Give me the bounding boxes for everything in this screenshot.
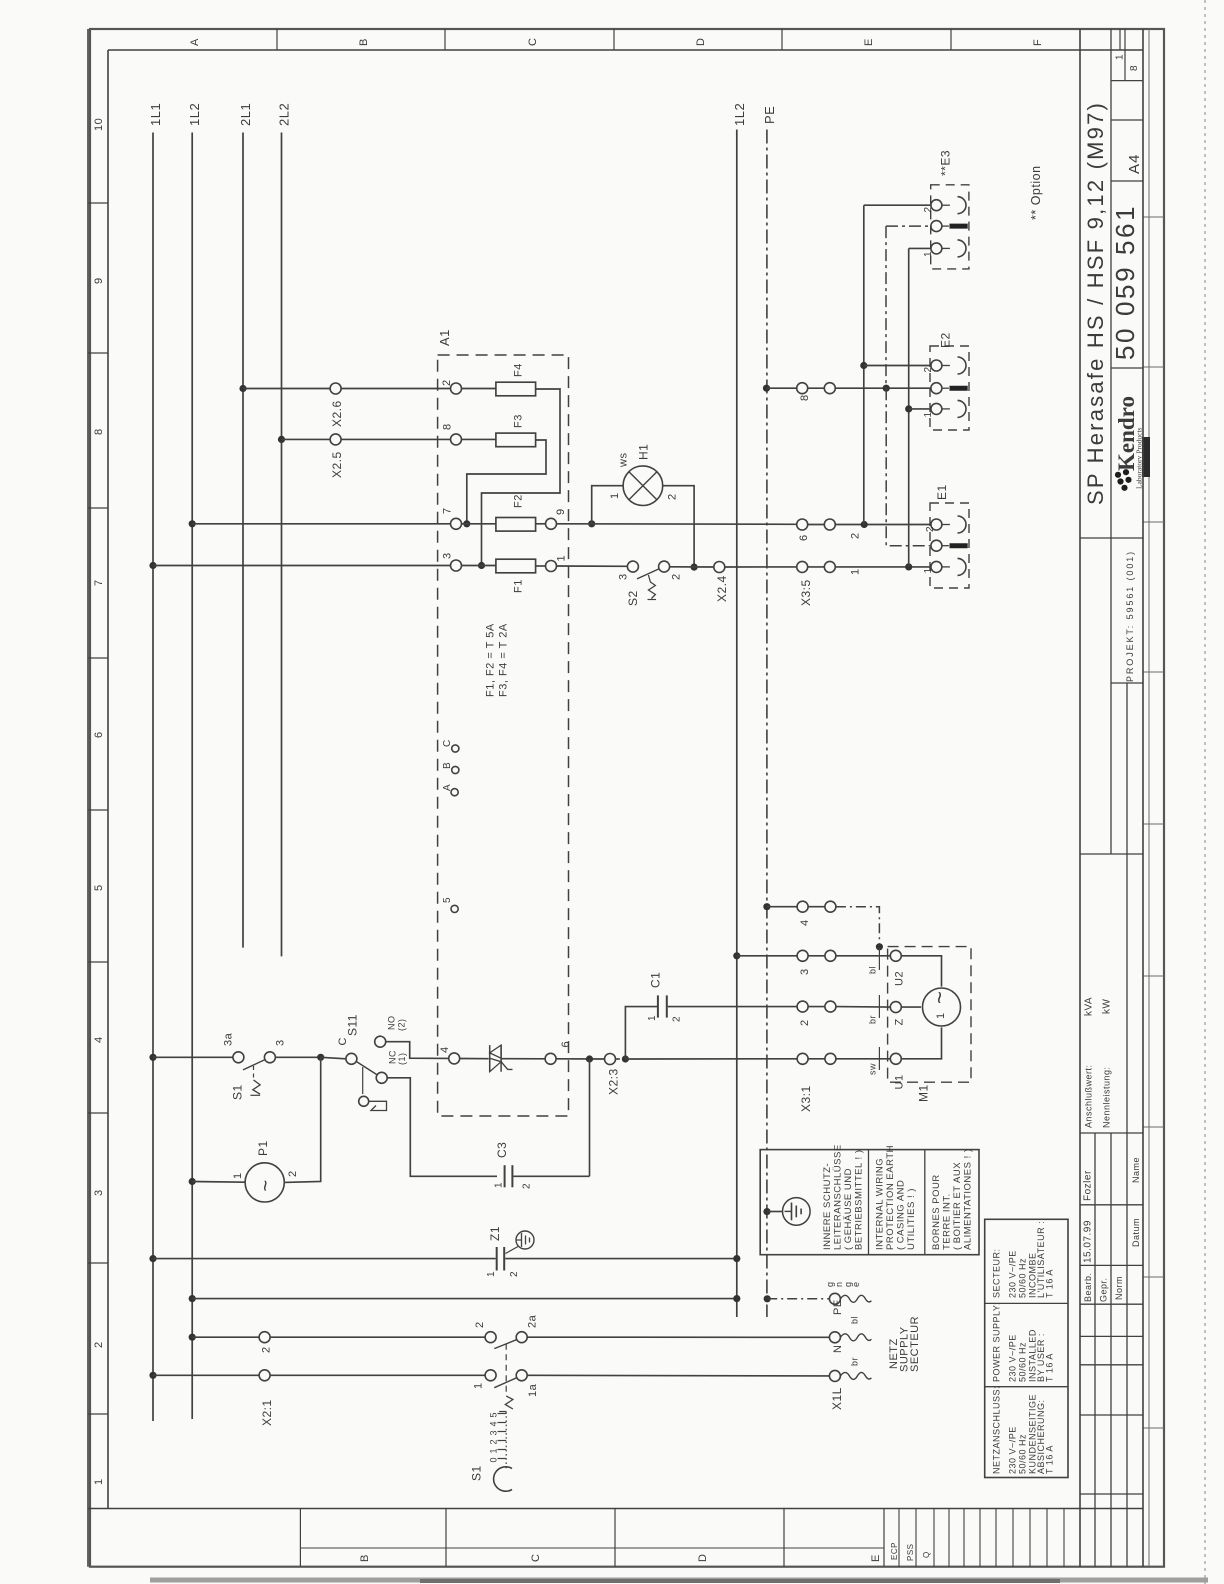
label 2L2 — [277, 103, 292, 126]
bus PE (dash-dot) — [766, 130, 768, 1318]
svg-text:8: 8 — [1129, 65, 1140, 71]
svg-text:5: 5 — [442, 897, 453, 903]
svg-text:D: D — [697, 1554, 709, 1562]
wire X2:1-2 to S1 contact 2 — [270, 1336, 485, 1338]
node PE bus to X1L — [764, 1295, 771, 1302]
pin A of A1 — [442, 784, 458, 796]
svg-text:6: 6 — [93, 731, 105, 738]
svg-text:X3:5: X3:5 — [799, 579, 813, 606]
node C3 riser — [586, 1055, 593, 1062]
svg-text:3: 3 — [489, 1430, 499, 1436]
svg-text:1: 1 — [647, 1015, 658, 1021]
wire E3 pin2 — [864, 204, 931, 206]
svg-text:4: 4 — [439, 1046, 451, 1053]
svg-text:1a: 1a — [527, 1383, 539, 1397]
wire X3:1-2 to motor Z — [836, 995, 890, 1024]
svg-text:Bearb.: Bearb. — [1083, 1272, 1093, 1302]
wire F1 to pin 1 — [536, 565, 546, 567]
svg-text:Gepr.: Gepr. — [1099, 1277, 1109, 1302]
pin 8 of A1 — [442, 423, 462, 445]
svg-text:2: 2 — [672, 1016, 683, 1022]
wire lamp pin2 — [663, 486, 694, 567]
svg-text:Name: Name — [1131, 1157, 1141, 1183]
svg-text:50 059 561: 50 059 561 — [1110, 204, 1140, 360]
svg-text:kW: kW — [1102, 999, 1113, 1015]
label option note — [1029, 165, 1043, 220]
terminal X2:1 pin 2 — [259, 1332, 272, 1353]
node 1L1 to S1 aux row — [149, 1054, 156, 1061]
svg-text:2: 2 — [850, 532, 862, 539]
svg-text:br: br — [850, 1357, 860, 1366]
svg-text:2: 2 — [923, 206, 934, 212]
Kendro logo — [1114, 396, 1144, 491]
svg-text:10: 10 — [93, 118, 105, 131]
value label fuses — [485, 623, 510, 697]
node E2 pin1 tap — [905, 405, 912, 412]
svg-text:2: 2 — [489, 1439, 499, 1445]
triac V1 phase control — [490, 1045, 513, 1072]
pin 9 of A1 — [546, 508, 568, 529]
svg-text:POWER SUPPLY:: POWER SUPPLY: — [992, 1302, 1002, 1382]
svg-text:2: 2 — [261, 1346, 273, 1353]
supply ratings box — [985, 1219, 1068, 1477]
wire 1L1 to S1 contact 3a — [153, 1056, 233, 1058]
bus 1L2 — [191, 133, 193, 1420]
svg-text:4: 4 — [489, 1421, 499, 1427]
svg-text:~: ~ — [927, 991, 952, 1004]
S1 position scale 0..5 — [489, 1412, 507, 1468]
svg-text:INTERNAL WIRING: INTERNAL WIRING — [875, 1158, 886, 1250]
label 1L2 right — [732, 103, 747, 126]
svg-text:1L2: 1L2 — [187, 103, 202, 126]
wire to E2 pin2 — [864, 365, 931, 367]
wire 1L1 to X2:1 pin1 — [153, 1374, 259, 1376]
pin 3 of A1 — [442, 552, 462, 571]
terminal X3:5 pin 1 — [797, 561, 836, 606]
svg-text:Datum: Datum — [1131, 1218, 1141, 1247]
svg-text:T 16 A: T 16 A — [1045, 1445, 1055, 1474]
main switch S1 contact 2-2a — [474, 1314, 539, 1348]
capacitor C3 — [494, 1142, 533, 1189]
svg-text:1: 1 — [494, 1182, 505, 1188]
svg-text:3: 3 — [93, 1189, 105, 1196]
fuse F2 — [496, 494, 536, 531]
svg-text:NO: NO — [387, 1016, 397, 1031]
svg-text:S1: S1 — [231, 1084, 245, 1100]
svg-text:2a: 2a — [527, 1314, 539, 1328]
wire E3 pin1 — [909, 247, 931, 249]
wire PE to X1L PE (dash-dot) — [767, 1298, 829, 1300]
label 2L1 — [238, 103, 253, 126]
wire PE to X3:5-8 — [767, 387, 797, 389]
svg-text:1: 1 — [486, 1271, 497, 1277]
label PE — [762, 106, 777, 124]
bus 1L1 — [152, 133, 154, 1422]
svg-text:2: 2 — [522, 1183, 533, 1189]
svg-text:X3:1: X3:1 — [799, 1085, 813, 1112]
terminal X1L N pigtail — [829, 1316, 871, 1353]
wire 1L1 to Z1 — [153, 1258, 496, 1260]
svg-text:BETRIEBSMITTEL ! ): BETRIEBSMITTEL ! ) — [854, 1150, 865, 1251]
svg-text:0: 0 — [489, 1457, 499, 1463]
motor M1 terminal Z — [890, 1002, 905, 1026]
internal protective earth symbol — [783, 1198, 811, 1226]
node N link to bus — [733, 1295, 740, 1302]
svg-text:3: 3 — [799, 968, 811, 975]
svg-text:NETZANSCHLUSS:: NETZANSCHLUSS: — [992, 1386, 1002, 1474]
wire X3:1-3 to motor U2 — [836, 948, 890, 975]
node 1L2 to pin7 row — [189, 520, 196, 527]
svg-text:1: 1 — [1115, 54, 1126, 60]
riser wire to E3 pin 2 — [863, 205, 865, 524]
terminal X2:1 pin 1 — [259, 1370, 274, 1426]
pin 7 of A1 — [442, 507, 462, 529]
wire S1 2a to X1L N — [527, 1336, 829, 1338]
node PE to X3:5 row8 — [763, 385, 770, 392]
svg-text:P1: P1 — [256, 1140, 270, 1156]
svg-text:5: 5 — [93, 884, 105, 891]
terminal X3:1 pin 2 — [797, 1001, 836, 1026]
svg-text:Anschlußwert:: Anschlußwert: — [1084, 1064, 1094, 1128]
S1 spring — [499, 1396, 513, 1412]
svg-text:1: 1 — [609, 492, 621, 499]
fuse F4 — [496, 363, 536, 396]
socket outlet E3 (option) — [923, 150, 969, 269]
terminal X2:4 — [714, 562, 729, 603]
svg-text:( CASING AND: ( CASING AND — [896, 1180, 907, 1250]
wire X2:6 row — [243, 388, 451, 390]
node E2 pin2 tap — [860, 362, 867, 369]
svg-text:BORNES POUR: BORNES POUR — [931, 1174, 942, 1250]
wire pin4 to triac — [460, 1058, 489, 1060]
frame row strip bottom (grid letters B..E) — [300, 1509, 884, 1567]
node 1L2 to X2:1-2 row — [189, 1334, 196, 1341]
svg-text:T 16 A: T 16 A — [1045, 1269, 1055, 1298]
svg-text:F2: F2 — [513, 494, 525, 508]
svg-text:br: br — [868, 1015, 878, 1024]
PE drop to E1 earth (dash-dot) — [886, 388, 931, 546]
label 1L1 — [148, 103, 163, 126]
svg-text:sw: sw — [868, 1063, 878, 1075]
svg-text:4: 4 — [93, 1036, 105, 1043]
svg-text:C: C — [442, 739, 453, 747]
svg-text:T 16 A: T 16 A — [1045, 1353, 1055, 1382]
svg-text:F3, F4 = T 2A: F3, F4 = T 2A — [498, 623, 510, 697]
svg-text:e: e — [851, 1281, 861, 1287]
document number — [1110, 204, 1140, 360]
svg-text:F1, F2 = T 5A: F1, F2 = T 5A — [485, 623, 497, 697]
wire node to S11 common — [321, 1057, 346, 1059]
wire pin6 to X2:3 — [556, 1058, 604, 1060]
svg-text:1: 1 — [923, 567, 934, 573]
earth note text german — [822, 1144, 865, 1250]
motor M1 terminal U1 — [890, 1053, 905, 1089]
svg-text:(2): (2) — [397, 1019, 407, 1032]
label gnge — [825, 1281, 861, 1287]
filter Z1 — [486, 1226, 534, 1277]
earth note text english — [875, 1145, 918, 1250]
svg-text:ALIMENTATIONES ! ): ALIMENTATIONES ! ) — [963, 1148, 974, 1250]
frame strip right — [1143, 29, 1164, 1567]
svg-text:Fozler: Fozler — [1083, 1170, 1094, 1201]
svg-text:15.07.99: 15.07.99 — [1083, 1220, 1094, 1263]
svg-text:C3: C3 — [495, 1142, 509, 1158]
svg-text:3: 3 — [442, 552, 454, 559]
node riser to E2/E3 pin1 — [905, 563, 912, 570]
wire to X3:1 row3 — [737, 955, 797, 957]
wire pin1 to S2 — [557, 565, 628, 567]
wire X3:5-6 to E1 pin2 — [835, 525, 931, 540]
svg-text:1: 1 — [232, 1172, 244, 1179]
bus 2L2 — [281, 133, 283, 957]
wire S11 NC to C3 — [387, 1078, 497, 1177]
label 1L2 — [187, 103, 202, 126]
socket outlet E2 — [923, 332, 969, 430]
terminal X1L PE pigtail — [829, 1293, 871, 1315]
svg-text:SECTEUR:: SECTEUR: — [992, 1248, 1002, 1298]
wire 1L2 to right bus (N link) — [192, 1298, 737, 1300]
svg-text:SP Herasafe HS / HSF 9,12 (M9: SP Herasafe HS / HSF 9,12 (M97) — [1083, 101, 1108, 505]
riser wire to E3 pin 1 — [908, 248, 910, 567]
svg-text:X2:1: X2:1 — [260, 1399, 274, 1426]
wire X3:5-8 to E2 earth — [835, 387, 931, 389]
svg-text:INNERE SCHUTZ-: INNERE SCHUTZ- — [822, 1163, 833, 1250]
svg-text:1: 1 — [923, 251, 934, 257]
svg-text:8: 8 — [799, 394, 811, 401]
svg-text:50/60 Hz: 50/60 Hz — [1018, 1434, 1028, 1474]
wire X2:5 row — [282, 438, 451, 440]
node lamp pin2 to line1 — [691, 564, 698, 571]
node 1L1 to X2:1-1 row — [149, 1372, 156, 1379]
svg-text:2: 2 — [799, 1019, 811, 1026]
svg-text:H1: H1 — [637, 444, 651, 460]
wire C3 to riser — [513, 1059, 589, 1176]
svg-text:X2:3: X2:3 — [607, 1068, 621, 1095]
svg-text:PROJEKT: 59561 (001): PROJEKT: 59561 (001) — [1125, 550, 1135, 682]
svg-text:X2.6: X2.6 — [330, 400, 344, 427]
svg-text:~: ~ — [255, 1179, 277, 1191]
svg-text:(1): (1) — [397, 1053, 407, 1066]
svg-text:X1L: X1L — [830, 1387, 844, 1410]
svg-text:1L2: 1L2 — [732, 103, 747, 126]
svg-text:( GEHÄUSE UND: ( GEHÄUSE UND — [843, 1168, 854, 1250]
label NETZ SUPPLY SECTEUR — [888, 1316, 921, 1372]
pin B of A1 — [442, 762, 459, 774]
svg-text:SECTEUR: SECTEUR — [909, 1316, 921, 1372]
svg-text:1: 1 — [850, 568, 862, 575]
title block grid — [1080, 29, 1143, 1567]
svg-text:B: B — [358, 38, 370, 46]
wire F2 to pin 9 — [536, 523, 546, 525]
wire S11 NO to pin 4 — [386, 1042, 449, 1059]
svg-text:( BOITIER ET AUX: ( BOITIER ET AUX — [952, 1162, 963, 1250]
node 1L1 to pin3 row — [149, 562, 156, 569]
svg-text:F4: F4 — [513, 363, 525, 377]
wire 1L1 to pin 3 — [153, 565, 451, 567]
wire contact3 to node — [275, 1056, 320, 1058]
wire F4 output to F1 input node — [482, 389, 561, 566]
svg-text:**E3: **E3 — [939, 150, 953, 176]
svg-text:230 V~/PE: 230 V~/PE — [1008, 1250, 1018, 1298]
node riser to E2/E3 pin2 — [861, 521, 868, 528]
node PE bus to earth note — [763, 1208, 770, 1215]
earth note text french — [931, 1148, 974, 1250]
svg-text:kVA: kVA — [1084, 997, 1095, 1016]
fuse F1 — [496, 559, 536, 593]
fuse F3 — [496, 414, 536, 447]
wire to E2 pin1 — [909, 408, 931, 410]
svg-text:6: 6 — [560, 1041, 572, 1048]
svg-text:1: 1 — [935, 1012, 947, 1019]
svg-text:A1: A1 — [437, 329, 452, 346]
wire X2:3 to node — [616, 1058, 620, 1060]
terminal X3:5 pin 8 — [797, 383, 836, 401]
svg-text:2: 2 — [671, 573, 683, 580]
svg-text:PSS: PSS — [906, 1543, 915, 1561]
svg-text:1: 1 — [93, 1478, 105, 1485]
wire F3 output to F2 input node — [467, 440, 546, 524]
svg-text:2: 2 — [667, 493, 679, 500]
svg-text:2L1: 2L1 — [238, 103, 253, 126]
svg-text:3a: 3a — [223, 1032, 235, 1046]
wire pin7 to F2 — [462, 523, 496, 525]
svg-text:ws: ws — [618, 453, 630, 468]
svg-text:Norm: Norm — [1114, 1276, 1124, 1300]
wire P1 to S1-aux node — [284, 1057, 320, 1182]
pin 4 of A1 — [439, 1046, 460, 1064]
svg-text:S11: S11 — [346, 1014, 360, 1036]
svg-text:8: 8 — [442, 423, 454, 430]
svg-text:S1: S1 — [470, 1465, 484, 1481]
wire PE to X3:1 row4 — [767, 906, 797, 908]
svg-text:A: A — [442, 784, 453, 791]
wire pin3 to F1 — [462, 565, 496, 567]
pin 5 of A1 — [442, 897, 458, 913]
earth note box — [760, 1150, 979, 1255]
svg-text:E1: E1 — [935, 484, 949, 500]
svg-text:3: 3 — [275, 1039, 287, 1046]
svg-text:2: 2 — [93, 1341, 105, 1348]
wire triac to pin 6 — [501, 1058, 545, 1060]
wire S2 to X2:4 — [670, 566, 714, 568]
wire line9 continuation to X3:5 row6 — [557, 523, 797, 526]
supply ratings power supply — [992, 1302, 1055, 1382]
svg-text:U1: U1 — [894, 1074, 906, 1089]
svg-text:C: C — [527, 38, 539, 46]
node 1L2 to P1 row — [189, 1178, 196, 1185]
capacitor C1 — [647, 972, 683, 1022]
svg-text:bl: bl — [850, 1316, 860, 1324]
node C1 branch — [622, 1055, 629, 1062]
frame column strip left (grid numbers 10..1) — [88, 118, 108, 1485]
svg-text:2L2: 2L2 — [277, 103, 292, 126]
svg-text:PE: PE — [832, 1299, 844, 1315]
svg-text:U2: U2 — [894, 971, 906, 986]
svg-text:Z1: Z1 — [488, 1226, 502, 1241]
svg-text:2: 2 — [923, 366, 934, 372]
terminal X1L L pigtail — [829, 1357, 871, 1410]
name date fields — [1083, 1157, 1142, 1302]
svg-text:Laboratory Products: Laboratory Products — [1135, 427, 1144, 489]
wire X2:1-1 to S1 contact 1 — [270, 1374, 485, 1376]
svg-text:ECP: ECP — [890, 1542, 899, 1560]
svg-text:2: 2 — [474, 1321, 486, 1328]
terminal X3:1 pin 3 — [797, 950, 836, 975]
svg-text:F1: F1 — [513, 579, 525, 593]
wire Z1 to 1L2 right bus — [505, 1258, 737, 1260]
wire 1L2 to pin 7 — [192, 523, 450, 525]
svg-text:2: 2 — [441, 379, 453, 386]
svg-text:LEITERANSCHLÜSSE: LEITERANSCHLÜSSE — [833, 1144, 844, 1250]
wire C1 to X3:1 row2 — [668, 1006, 797, 1008]
svg-text:E: E — [863, 38, 875, 46]
svg-text:NC: NC — [388, 1050, 398, 1064]
wire PE to internal earth symbol — [767, 1211, 783, 1213]
svg-text:230 V~/PE: 230 V~/PE — [1008, 1334, 1018, 1382]
wire X2:4 to X3:5 row1 — [725, 566, 797, 568]
svg-text:A4: A4 — [1126, 154, 1143, 174]
svg-text:B: B — [359, 1554, 371, 1562]
svg-text:2: 2 — [287, 1170, 299, 1177]
terminal X3:1 pin 1 — [797, 1053, 836, 1112]
node PE to motor row — [763, 903, 770, 910]
wire S2 line to X3:5 row1 — [835, 567, 931, 575]
svg-text:F3: F3 — [513, 414, 525, 428]
switch S11 (door switch) with NO/NC — [337, 1014, 407, 1110]
wire lamp pin1 — [592, 486, 623, 524]
terminal X3:5 pin 6 — [797, 519, 836, 541]
svg-text:6: 6 — [798, 534, 810, 541]
node 2L2 to X2:5 tap — [278, 436, 285, 443]
bus 1L2 right — [736, 130, 738, 1318]
switch S2 — [618, 561, 683, 606]
svg-text:Z: Z — [894, 1018, 906, 1025]
wire X3:1-1 to motor U1 — [836, 1047, 890, 1075]
svg-text:1: 1 — [923, 411, 934, 417]
svg-text:2: 2 — [925, 526, 936, 532]
S1 rotary actuator — [470, 1465, 513, 1491]
frame row strip top (grid letters A..F) — [189, 29, 1120, 50]
svg-text:50/60 Hz: 50/60 Hz — [1018, 1258, 1028, 1298]
svg-text:1: 1 — [489, 1448, 499, 1454]
node 1L2right to X3:1 row3 — [733, 952, 740, 959]
svg-text:E2: E2 — [939, 332, 953, 348]
svg-text:B: B — [442, 762, 453, 769]
sheet number cell — [1115, 54, 1141, 71]
terminal X3:1 pin 4 — [797, 901, 836, 926]
svg-text:M1: M1 — [917, 1084, 931, 1102]
node 1L1 to Z1 row — [149, 1255, 156, 1262]
svg-text:8: 8 — [93, 428, 105, 435]
pin 6 of A1 — [545, 1041, 572, 1064]
node F3 output junction — [463, 520, 470, 527]
svg-text:F: F — [1032, 39, 1044, 46]
socket outlet E1 — [923, 484, 969, 588]
svg-text:C1: C1 — [649, 972, 663, 988]
terminal X2:3 — [605, 1054, 621, 1096]
node motor frame earth — [876, 943, 883, 950]
svg-text:E: E — [870, 1554, 882, 1562]
main switch S1 contact 1-1a — [473, 1370, 540, 1397]
node PE riser to sockets — [883, 385, 890, 392]
wire 1L2 to X2:1 pin2 — [192, 1336, 259, 1338]
svg-text:9: 9 — [93, 277, 105, 284]
svg-text:Q: Q — [922, 1551, 931, 1558]
svg-text:Nennleistung:: Nennleistung: — [1102, 1066, 1112, 1128]
svg-text:X2.5: X2.5 — [330, 451, 344, 478]
svg-text:bl: bl — [868, 966, 878, 974]
svg-text:4: 4 — [799, 919, 811, 926]
